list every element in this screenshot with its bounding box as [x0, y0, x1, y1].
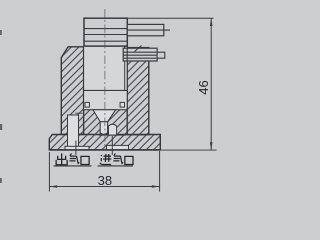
svg-text:38: 38: [98, 173, 112, 188]
svg-text:46: 46: [196, 80, 211, 94]
